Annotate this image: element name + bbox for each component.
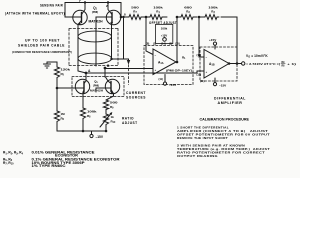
wire: node A down to Q2A collector bbox=[85, 73, 87, 76]
transistor Q1A (sensing pair left) bbox=[73, 3, 87, 25]
shield loop lower (oval) bbox=[78, 53, 112, 64]
terminal: A1B -15V bbox=[200, 78, 227, 88]
terminal: -15V supply bbox=[90, 131, 93, 138]
node: tap on conductor bbox=[110, 58, 112, 60]
svg-text:A1A: A1A bbox=[158, 61, 164, 66]
label R9 bbox=[110, 101, 118, 110]
svg-text:+15V: +15V bbox=[209, 38, 217, 42]
wire: A1A output bbox=[176, 61, 177, 63]
svg-text:500: 500 bbox=[110, 101, 118, 105]
wire: base tie left jog (diode connection) bbox=[65, 3, 73, 18]
svg-text:(12): (12) bbox=[197, 73, 202, 77]
svg-text:(PMI OP–10EY): (PMI OP–10EY) bbox=[166, 69, 192, 73]
node: row junction bbox=[145, 16, 148, 19]
wire: dashed drop to amp common bbox=[128, 65, 130, 85]
svg-text:CURRENT: CURRENT bbox=[126, 91, 146, 95]
terminal: A1B +15V bbox=[209, 38, 217, 49]
cable conductor right (emitter run) bbox=[111, 25, 113, 60]
label R1 node bbox=[182, 56, 186, 61]
wire: node B to amp A1A +input bbox=[105, 68, 153, 70]
node: row junction to A1B bbox=[198, 16, 201, 19]
node: base tap bbox=[56, 87, 59, 90]
svg-text:120k: 120k bbox=[61, 68, 71, 72]
label: offset adjust bbox=[149, 21, 177, 25]
svg-text:(10): (10) bbox=[197, 53, 202, 57]
svg-text:+ 1): + 1) bbox=[287, 62, 296, 66]
svg-text:AMPLIFIER: AMPLIFIER bbox=[218, 101, 243, 105]
resistor R7 500 (top row) bbox=[127, 15, 143, 20]
potentiometer R10 (ratio adjust) bbox=[100, 112, 112, 131]
svg-text:R7, R10: R7, R10 bbox=[3, 161, 14, 166]
svg-text:(1): (1) bbox=[153, 42, 156, 46]
svg-text:REMOVE THE INPUT SHORT: REMOVE THE INPUT SHORT bbox=[177, 136, 228, 140]
node: output junction bbox=[176, 61, 179, 64]
resistor R1 100k (top row) bbox=[143, 15, 167, 20]
offset pot bbox=[161, 27, 168, 42]
pin numbers A1A bbox=[146, 42, 180, 46]
resistor R2 600 (top row) bbox=[177, 15, 197, 20]
wire: R9 to pot bbox=[105, 110, 107, 114]
ground bbox=[44, 62, 58, 68]
label: conductor resistance unimportant bbox=[12, 50, 72, 54]
svg-text:ADJUST: ADJUST bbox=[122, 121, 138, 125]
pin numbers A1B bbox=[197, 53, 202, 77]
svg-text:(11): (11) bbox=[159, 77, 164, 81]
svg-text:CALIBRATION PROCEDURE: CALIBRATION PROCEDURE bbox=[200, 118, 250, 122]
svg-text:OUTPUT READING: OUTPUT READING bbox=[177, 154, 219, 158]
label: differential amplifier bbox=[214, 97, 246, 106]
shield loop upper (oval) bbox=[78, 31, 112, 42]
resistor R5 120k (vertical) bbox=[54, 62, 59, 88]
label R1 bbox=[153, 6, 163, 15]
label R2 bbox=[184, 6, 192, 15]
package: Q2 dashed box bbox=[72, 77, 124, 97]
wire: right conductor to arrow bbox=[112, 58, 129, 60]
transistor Q1B (sensing pair right) bbox=[96, 3, 121, 27]
svg-text:= 2.7315V AT 0°C ×(: = 2.7315V AT 0°C ×( bbox=[246, 62, 280, 66]
svg-text:DIFFERENTIAL: DIFFERENTIAL bbox=[214, 97, 246, 101]
shield: dashed cable outline bbox=[69, 29, 118, 66]
notes: component table bbox=[3, 151, 120, 168]
label R10 bbox=[111, 115, 116, 124]
label: attach with thermal epoxy bbox=[5, 12, 65, 16]
pin 7 bbox=[79, 0, 81, 3]
svg-text:(2): (2) bbox=[169, 42, 172, 46]
cable conductor centre (base run) bbox=[95, 26, 97, 66]
svg-text:−: − bbox=[155, 54, 157, 58]
node: output tip bbox=[228, 62, 231, 65]
svg-text:+15V: +15V bbox=[161, 33, 168, 37]
terminal: output bbox=[242, 62, 245, 65]
svg-text:+: + bbox=[155, 68, 157, 72]
svg-text:–15V: –15V bbox=[219, 84, 227, 88]
wire: row drop to arrow junction bbox=[123, 17, 125, 59]
svg-text:(PMI): (PMI) bbox=[93, 85, 99, 88]
svg-text:SHIELDED PAIR CABLE: SHIELDED PAIR CABLE bbox=[18, 44, 65, 48]
svg-text:UP TO 100 FEET: UP TO 100 FEET bbox=[25, 39, 60, 43]
svg-text:SOURCES: SOURCES bbox=[126, 96, 146, 100]
resistor R9 500 (vertical) bbox=[103, 100, 108, 110]
label Q2 PMI MAT-02H bbox=[90, 80, 103, 93]
cable conductor left (emitter run) bbox=[78, 25, 86, 74]
svg-text:+: + bbox=[206, 70, 208, 74]
node A bbox=[85, 72, 88, 75]
svg-text:1M: 1M bbox=[61, 112, 66, 116]
svg-text:VO = 10mV/°K: VO = 10mV/°K bbox=[246, 54, 268, 59]
op-amp A1A bbox=[153, 49, 176, 75]
pin 2 bbox=[106, 4, 108, 8]
wire: A1B output to terminal bbox=[229, 63, 242, 65]
op-amp A1B bbox=[204, 50, 229, 79]
node: rail junctions bbox=[82, 130, 85, 133]
wire: Q2A emitter down bbox=[82, 96, 84, 131]
pin 8 bbox=[124, 13, 126, 17]
svg-text:(14): (14) bbox=[161, 42, 166, 46]
wire: tap to Q2A base bbox=[57, 87, 75, 89]
wire: emitter degeneration rail bbox=[57, 130, 106, 132]
wire: top collector rail bbox=[65, 2, 121, 4]
resistor R8 100k (vertical) bbox=[80, 108, 85, 122]
label: up to 100 feet cable bbox=[18, 39, 65, 48]
label R8 bbox=[87, 110, 97, 119]
svg-text:100k: 100k bbox=[87, 110, 97, 114]
label R3 bbox=[208, 6, 218, 15]
package: A1A dashed box bbox=[144, 46, 193, 85]
notes: calibration procedure bbox=[177, 118, 270, 158]
node: row junction feedback bbox=[176, 16, 179, 19]
label R7 bbox=[131, 6, 139, 15]
wire: row drop to A1B -input bbox=[199, 17, 204, 57]
svg-text:1% TYPE RN60C: 1% TYPE RN60C bbox=[32, 164, 67, 168]
svg-text:A1B: A1B bbox=[209, 62, 215, 67]
transistor Q2B (current source right) bbox=[96, 77, 120, 96]
resistor R6 (vertical) bbox=[54, 88, 59, 131]
wire: Q2B emitter down bbox=[106, 96, 114, 100]
svg-text:–15V: –15V bbox=[96, 135, 104, 139]
wire: node A to amp A1B +input bbox=[86, 71, 204, 73]
wire: row drop to A1A -input bbox=[146, 17, 153, 55]
node: rail junction right bbox=[107, 1, 109, 3]
svg-text:SENSING PAIR: SENSING PAIR bbox=[40, 4, 63, 8]
transistor Q2A (current source left) bbox=[75, 76, 89, 96]
svg-text:100k: 100k bbox=[161, 27, 168, 31]
current arrow down bbox=[128, 59, 130, 60]
svg-text:(15): (15) bbox=[175, 42, 180, 46]
label: PMI OP-10EY bbox=[166, 69, 192, 73]
node B bbox=[104, 67, 107, 70]
svg-text:(11): (11) bbox=[200, 79, 205, 83]
svg-text:(ATTACH WITH THERMAL EPOXY): (ATTACH WITH THERMAL EPOXY) bbox=[5, 12, 65, 16]
svg-text:(PMI): (PMI) bbox=[92, 11, 98, 14]
label: current sources bbox=[126, 91, 146, 100]
svg-text:R1, R2, R3, R4: R1, R2, R3, R4 bbox=[3, 151, 24, 156]
wire: feedback A1A output to row bbox=[176, 17, 178, 62]
terminal: A1A -15V bbox=[159, 75, 178, 88]
node: row junction at x121 bbox=[120, 16, 123, 19]
label -15V bbox=[96, 135, 104, 139]
package: A1B dashed box bbox=[200, 47, 237, 81]
label R6 bbox=[61, 112, 66, 121]
svg-text:(8): (8) bbox=[146, 42, 149, 46]
label Q1 MAT-02H bbox=[89, 6, 104, 24]
svg-text:MAT-02H: MAT-02H bbox=[90, 89, 103, 93]
wire: rail drop to resistor row bbox=[121, 3, 127, 18]
resistor R3 100k (top row) bbox=[199, 15, 219, 20]
node: row drop junction bbox=[122, 16, 124, 18]
node: feedback junction bbox=[236, 62, 239, 65]
label: SENSING PAIR bbox=[40, 4, 63, 8]
wire: node B down to Q2B collector bbox=[104, 69, 106, 78]
label R5 bbox=[61, 68, 71, 77]
label: ratio adjust bbox=[122, 117, 138, 126]
node: rail junction left bbox=[84, 1, 86, 3]
svg-text:(CONDUCTOR RESISTANCE UNIMPORT: (CONDUCTOR RESISTANCE UNIMPORTANT) bbox=[12, 50, 72, 54]
svg-text:–15V: –15V bbox=[169, 83, 177, 87]
svg-text:Q1: Q1 bbox=[93, 6, 97, 11]
svg-text:1k: 1k bbox=[111, 115, 115, 119]
wire: row to output feedback drop bbox=[221, 17, 237, 64]
offset pot box bbox=[156, 24, 173, 43]
svg-text:RATIO: RATIO bbox=[122, 117, 134, 121]
svg-text:−: − bbox=[206, 56, 208, 60]
svg-text:MAT-02H: MAT-02H bbox=[89, 20, 104, 24]
label: Vo equations bbox=[246, 54, 268, 59]
